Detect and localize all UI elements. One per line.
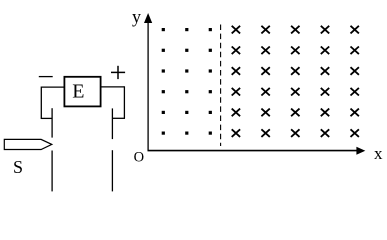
svg-text:O: O <box>134 149 144 165</box>
svg-text:y: y <box>132 7 141 27</box>
svg-text:S: S <box>13 157 23 177</box>
svg-text:E: E <box>72 81 84 103</box>
svg-text:x: x <box>374 144 383 163</box>
